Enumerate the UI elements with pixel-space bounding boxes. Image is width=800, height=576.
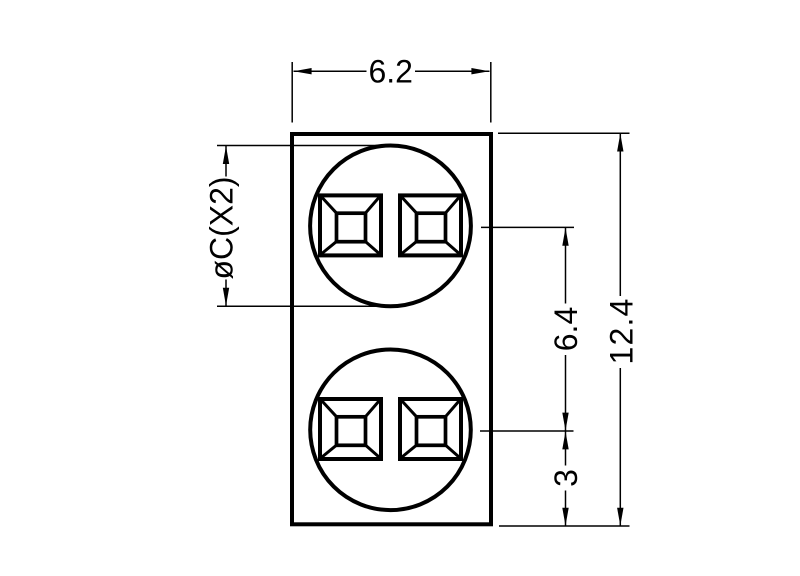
arrow phiC up — [223, 146, 229, 164]
dimension 6.2 extension line right — [490, 62, 492, 123]
arrow 6.4 down — [562, 413, 568, 431]
svg-text:6.2: 6.2 — [368, 54, 412, 90]
svg-text:øC(X2): øC(X2) — [204, 176, 240, 279]
chip upper-left — [320, 195, 381, 255]
dimension phiC extension line top — [217, 145, 390, 147]
dimension 12.4 line top segment — [619, 134, 621, 297]
dimension 6.4 extension line top — [481, 226, 574, 228]
arrow 3 up — [562, 431, 568, 449]
dimension 6.4 line top segment — [565, 228, 567, 304]
svg-text:3: 3 — [548, 469, 584, 487]
upper lens circle — [310, 146, 471, 307]
dimension 6.4/3 shared extension line — [480, 430, 574, 432]
chip lower-right — [400, 399, 461, 459]
dimension 6.4 line bottom segment — [565, 355, 567, 431]
dimension 6.2 extension line left — [291, 62, 293, 123]
dimension 12.4 extension line top — [498, 132, 630, 134]
dimension phiC line bottom segment — [225, 280, 227, 306]
arrow 12.4 up — [617, 134, 623, 152]
chip lower-left — [320, 399, 381, 459]
dimension 12.4 extension line bottom — [499, 525, 630, 527]
svg-text:12.4: 12.4 — [604, 297, 640, 364]
dimension 3 line bottom segment — [565, 491, 567, 526]
arrow 6.2 right — [471, 68, 489, 74]
dimension phiC extension line bottom — [217, 305, 390, 307]
arrow 12.4 down — [617, 508, 623, 526]
dimension phiC line top segment — [225, 146, 227, 177]
dimension 12.4 line bottom segment — [619, 368, 621, 526]
dimension 6.2 line right segment — [415, 70, 490, 72]
arrow 3 down — [562, 508, 568, 526]
package outline rectangle — [292, 134, 491, 524]
arrow 6.4 up — [562, 228, 568, 246]
arrow phiC down — [223, 288, 229, 306]
dimension 6.2 line left segment — [294, 70, 367, 72]
chip upper-right — [400, 195, 461, 255]
dimension 3 line top segment — [565, 431, 567, 465]
svg-text:6.4: 6.4 — [548, 307, 584, 351]
lower lens circle — [310, 350, 471, 511]
arrow 6.2 left — [294, 68, 312, 74]
